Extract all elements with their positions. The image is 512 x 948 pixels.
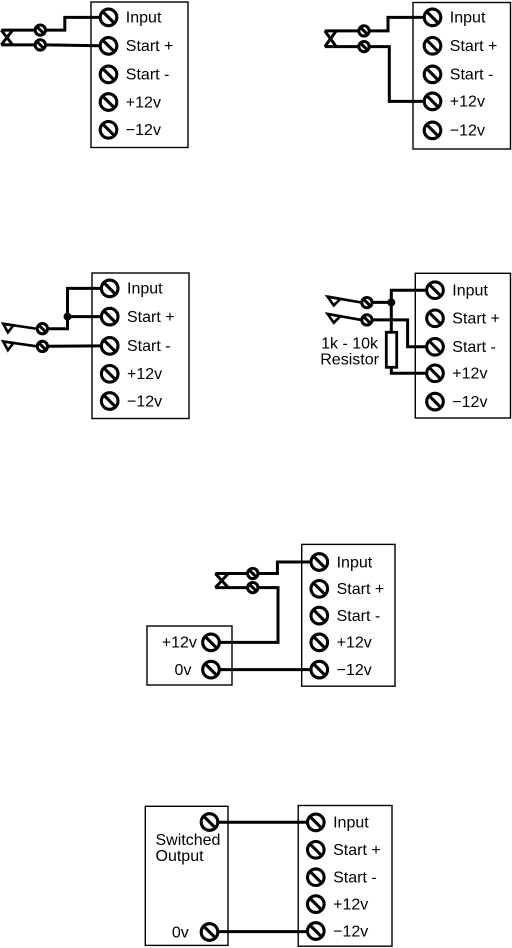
D1 switch contact top xyxy=(35,25,45,35)
PSU terminal +12v xyxy=(203,634,220,651)
D3 junction node xyxy=(64,313,72,321)
svg-text:Start +: Start + xyxy=(127,309,175,326)
svg-text:−12v: −12v xyxy=(333,923,368,940)
D3 switch 2 contact xyxy=(37,341,47,351)
D4 wire resistor to +12v xyxy=(391,367,425,373)
svg-text:Input: Input xyxy=(450,10,486,27)
svg-text:Start -: Start - xyxy=(450,67,494,84)
power supply block xyxy=(147,626,232,685)
svg-text:Start +: Start + xyxy=(333,842,381,859)
svg-text:+12v: +12v xyxy=(333,896,368,913)
D5 wire switch to PSU +12v xyxy=(220,588,278,643)
svg-text:Input: Input xyxy=(333,815,369,832)
D4 switch 1 lever xyxy=(328,297,361,303)
B1 terminal Start - xyxy=(100,66,117,83)
B4 terminal Input xyxy=(427,282,444,299)
D5 wire PSU 0v to -12v xyxy=(220,668,310,671)
D1 wire to Start + xyxy=(46,43,99,47)
svg-text:1k - 10k: 1k - 10k xyxy=(321,335,379,352)
B5 terminal −12v xyxy=(311,661,328,678)
svg-text:0v: 0v xyxy=(172,924,189,941)
D4 wire switch 1 to junction xyxy=(373,301,391,304)
D2 wire plug to top terminal xyxy=(325,29,358,32)
D5 wire plug to bottom terminal xyxy=(215,586,247,589)
D5 switch contact bottom xyxy=(248,582,258,592)
svg-text:−12v: −12v xyxy=(126,122,161,139)
terminal block B5 xyxy=(302,544,395,686)
D4 wire junction to resistor xyxy=(390,302,393,332)
switched output 0v terminal xyxy=(201,924,218,941)
svg-text:Start -: Start - xyxy=(337,608,381,625)
D3 wire junction to Start + xyxy=(68,315,101,318)
D4 wire switch 2 to Start - xyxy=(373,320,426,347)
svg-text:Start +: Start + xyxy=(337,581,385,598)
D4 switch 2 contact xyxy=(362,315,372,325)
B2 terminal +12v xyxy=(424,93,441,110)
svg-text:+12v: +12v xyxy=(126,94,161,111)
B3 terminal −12v xyxy=(101,393,118,410)
D4 switch 2 lever xyxy=(328,314,361,320)
D4 wire junction to Input xyxy=(391,290,425,302)
D2 switch contact bottom xyxy=(359,41,369,51)
D3 switch 2 lever xyxy=(3,342,36,347)
B1 terminal Input xyxy=(100,9,117,26)
B4 terminal −12v xyxy=(427,393,444,410)
svg-text:Start +: Start + xyxy=(450,38,498,55)
D2 wire to Input xyxy=(370,17,423,31)
svg-text:Input: Input xyxy=(127,281,163,298)
terminal block B1 xyxy=(91,2,188,148)
D4 switch 1 contact xyxy=(362,297,372,307)
svg-text:0v: 0v xyxy=(175,662,192,679)
D3 switch 1 pole triangle xyxy=(3,324,13,333)
D6 wire output to Input xyxy=(219,821,307,824)
B6 terminal −12v xyxy=(308,923,325,940)
B2 terminal Start + xyxy=(424,38,441,55)
D4 switch 2 pole triangle xyxy=(328,314,341,323)
terminal block B4 xyxy=(415,273,510,418)
svg-text:+12v: +12v xyxy=(452,366,487,383)
svg-text:+12v: +12v xyxy=(337,635,372,652)
D2 plug X (crossover plug) xyxy=(325,31,336,47)
D1 plug X (crossover plug) xyxy=(1,30,12,45)
B6 terminal Start - xyxy=(308,869,325,886)
D4 switch 1 pole triangle xyxy=(328,297,341,306)
D2 wire to +12v xyxy=(370,47,423,102)
D3 wire switch 2 to Start - xyxy=(49,344,101,347)
D1 wire plug to top terminal xyxy=(1,29,34,32)
svg-text:+12v: +12v xyxy=(162,635,197,652)
D3 switch 2 pole triangle xyxy=(3,342,13,351)
terminal block B3 xyxy=(92,273,189,419)
D3 switch 1 contact xyxy=(37,324,47,334)
D1 wire to Input xyxy=(46,17,99,30)
PSU terminal 0v xyxy=(203,661,220,678)
terminal block B2 xyxy=(413,3,511,150)
D1 wire plug to bottom terminal xyxy=(1,43,34,46)
B5 terminal Start - xyxy=(311,607,328,624)
B2 terminal −12v xyxy=(424,122,441,139)
D6 wire 0v to -12v xyxy=(219,930,307,933)
B5 terminal +12v xyxy=(311,634,328,651)
D5 switch contact top xyxy=(248,568,258,578)
svg-text:+12v: +12v xyxy=(127,366,162,383)
svg-text:+12v: +12v xyxy=(450,94,485,111)
svg-text:Input: Input xyxy=(126,10,162,27)
B3 terminal Start + xyxy=(101,308,118,325)
svg-text:Start -: Start - xyxy=(127,338,171,355)
svg-text:−12v: −12v xyxy=(127,393,162,410)
B3 terminal Start - xyxy=(101,338,118,355)
D5 wire to Input xyxy=(259,562,310,574)
B6 terminal Input xyxy=(308,814,325,831)
B3 terminal Input xyxy=(101,280,118,297)
svg-text:−12v: −12v xyxy=(450,123,485,140)
svg-text:−12v: −12v xyxy=(452,394,487,411)
svg-text:Output: Output xyxy=(156,848,205,865)
svg-text:Input: Input xyxy=(452,283,488,300)
svg-text:Start +: Start + xyxy=(126,38,174,55)
B5 terminal Start + xyxy=(311,581,328,598)
B1 terminal +12v xyxy=(100,94,117,111)
D1 switch contact bottom xyxy=(35,40,45,50)
switched output block xyxy=(145,806,228,945)
B6 terminal Start + xyxy=(308,842,325,859)
svg-text:Resistor: Resistor xyxy=(320,351,379,368)
svg-text:Switched: Switched xyxy=(156,832,221,849)
svg-text:Input: Input xyxy=(337,554,373,571)
D3 wire switch 1 to Input xyxy=(49,288,101,328)
B4 terminal Start + xyxy=(427,310,444,327)
B3 terminal +12v xyxy=(101,366,118,383)
svg-text:Start -: Start - xyxy=(126,67,170,84)
B2 terminal Start - xyxy=(424,66,441,83)
B6 terminal +12v xyxy=(308,896,325,913)
B5 terminal Input xyxy=(311,554,328,571)
D2 wire plug to bottom terminal xyxy=(325,45,358,48)
B1 terminal Start + xyxy=(100,38,117,55)
B1 terminal −12v xyxy=(100,122,117,139)
B4 terminal +12v xyxy=(427,365,444,382)
svg-text:Start -: Start - xyxy=(452,339,496,356)
B4 terminal Start - xyxy=(427,339,444,356)
B2 terminal Input xyxy=(424,9,441,26)
svg-text:Start +: Start + xyxy=(452,311,500,328)
D2 switch contact top xyxy=(359,26,369,36)
D5 plug X (crossover plug) xyxy=(215,574,228,588)
D3 switch 1 lever xyxy=(3,324,36,329)
terminal block B6 xyxy=(298,806,392,947)
D5 wire plug to top terminal xyxy=(215,572,247,575)
svg-text:Start -: Start - xyxy=(333,870,377,887)
resistor R1 1k-10k xyxy=(386,332,396,367)
D4 junction node xyxy=(387,298,395,306)
switched output terminal xyxy=(201,814,218,831)
svg-text:−12v: −12v xyxy=(337,662,372,679)
